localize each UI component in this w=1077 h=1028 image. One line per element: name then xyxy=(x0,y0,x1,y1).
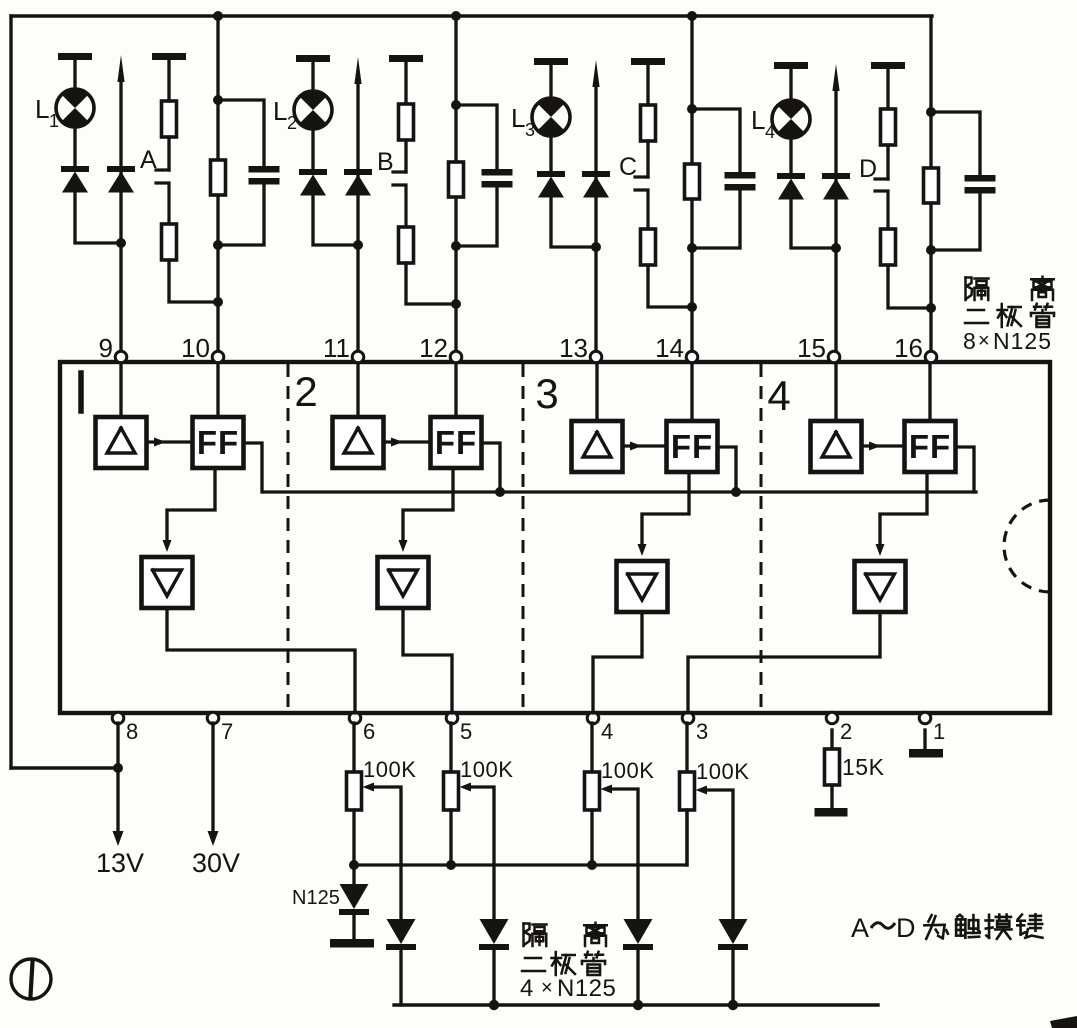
wire: pin to FF section 2 xyxy=(454,363,457,417)
wire: resistor to key C plate xyxy=(646,141,649,177)
wire: FF1 output to common line xyxy=(244,443,263,492)
wire: L3 diode to junction xyxy=(551,197,596,247)
svg-text:D: D xyxy=(859,155,877,183)
IC section divider 2 (dashed) xyxy=(522,364,525,711)
junction: key A node xyxy=(213,297,223,307)
svg-text:13: 13 xyxy=(559,333,588,363)
diode: isolation diode on sense line 1 xyxy=(107,166,135,193)
capacitor: channel 4 timing cap xyxy=(965,175,996,194)
terminal: mains bar for lamp L1 xyxy=(58,53,92,60)
label pin 3 xyxy=(696,719,708,744)
svg-text:100K: 100K xyxy=(363,757,416,782)
svg-text:2: 2 xyxy=(294,368,317,415)
scan mark bottom-right corner xyxy=(1050,1016,1077,1028)
flip-flop FF section 1 xyxy=(193,417,244,468)
resistor: channel 4 line resistor xyxy=(924,168,939,203)
wire: FF1 to driver xyxy=(163,468,216,552)
svg-text:15K: 15K xyxy=(842,754,885,780)
svg-text:100K: 100K xyxy=(601,758,654,783)
amp block section 1 xyxy=(96,417,147,468)
label: A~D are touch keys xyxy=(851,913,1042,943)
wire: L4 diode to junction xyxy=(791,199,836,248)
svg-text:N125: N125 xyxy=(993,328,1052,354)
diode: isolation diode on sense line 3 xyxy=(582,171,610,198)
lamp L3 xyxy=(532,98,570,137)
wire: channel 3 oscillator line xyxy=(690,16,693,352)
label L1 xyxy=(35,94,59,131)
wire: key A to pin 10 line xyxy=(169,260,218,302)
wire: resistor to key D plate xyxy=(886,145,889,179)
pin 1 terminal xyxy=(919,712,931,724)
junction: channel 4 RC top node xyxy=(926,107,936,117)
wire: pin 8 to 13V xyxy=(116,723,119,832)
wire: pot 3 bottom lead xyxy=(590,810,593,865)
terminal: mains bar for lamp L4 xyxy=(774,62,808,69)
junction: channel 3 RC top node xyxy=(687,104,697,114)
diode: isolation diode under L4 xyxy=(777,173,805,200)
junction: channel 2 diode node xyxy=(353,240,363,250)
svg-text:4: 4 xyxy=(765,122,775,142)
label pin 15 xyxy=(797,333,826,363)
label pin 8 xyxy=(126,719,138,744)
wire: amp to FF section 4 xyxy=(862,442,905,451)
resistor: lower resistor of key B xyxy=(399,227,414,263)
IC U1 outline xyxy=(60,362,1050,713)
svg-text:×: × xyxy=(978,330,990,352)
label 15K xyxy=(842,754,885,780)
svg-text:7: 7 xyxy=(221,719,233,744)
label pin 11 xyxy=(323,333,350,363)
label 100K (pin 3) xyxy=(696,759,749,784)
wire: key C to pin 14 line xyxy=(648,265,692,307)
wire: left supply rail (down left side) xyxy=(9,16,12,768)
svg-text:B: B xyxy=(377,148,394,176)
wiper arrow pot 1 xyxy=(363,783,402,920)
wire: channel 3 capacitor branch xyxy=(692,109,740,248)
label pin 16 xyxy=(894,333,923,363)
driver block section 2 xyxy=(378,557,429,608)
wire: 220V top supply rail xyxy=(11,14,932,17)
resistor: upper resistor of key D xyxy=(881,109,896,145)
IC package notch (dashed) xyxy=(1004,500,1050,592)
wire: diode 1 to bottom bus xyxy=(399,950,402,1005)
wiper arrow pot 3 xyxy=(601,785,639,920)
wire: pin to FF section 1 xyxy=(216,363,219,417)
wire: resistor to key A plate xyxy=(167,137,170,170)
wire: pin to amp section 2 xyxy=(356,363,359,417)
pin 10 terminal xyxy=(212,351,224,363)
label pin 6 xyxy=(363,719,375,744)
wire: lamp L2 top lead xyxy=(311,61,314,91)
wire: channel 2 oscillator line xyxy=(454,16,457,352)
wire: pin to FF section 4 xyxy=(928,363,931,421)
label pin 9 xyxy=(99,333,113,363)
label 30V xyxy=(192,848,240,878)
pin 4 terminal xyxy=(587,712,599,724)
lamp L1 xyxy=(56,89,94,128)
wire: channel 4 oscillator line xyxy=(929,16,932,352)
wire: pin to FF section 3 xyxy=(690,363,693,421)
driver block section 4 xyxy=(855,561,906,612)
wire: pot common line xyxy=(354,810,687,865)
pin 8 terminal xyxy=(112,712,124,724)
svg-text:C: C xyxy=(619,153,637,181)
terminal: mains bar for lamp L3 xyxy=(534,58,568,65)
wire: N125 clamp branch xyxy=(352,865,355,884)
svg-text:2: 2 xyxy=(287,113,297,133)
potentiometer 100K (pin 6) xyxy=(347,772,362,810)
touch key A lower plate xyxy=(156,183,169,224)
svg-text:10: 10 xyxy=(181,333,210,363)
resistor: channel 2 line resistor xyxy=(449,162,464,197)
diode: isolation diode 2 (4xN125) xyxy=(479,919,509,950)
label L4 xyxy=(751,105,775,142)
label: IC section 2 xyxy=(294,368,317,415)
svg-text:12: 12 xyxy=(419,333,448,363)
diode: isolation diode on sense line 2 xyxy=(344,169,372,196)
pin 7 terminal xyxy=(207,712,219,724)
wiper arrow pot 2 xyxy=(460,783,495,920)
svg-text:4: 4 xyxy=(767,372,790,419)
flip-flop FF section 2 xyxy=(431,417,482,468)
wire: pin 6 to pot xyxy=(352,723,355,772)
amp block section 2 xyxy=(333,417,384,468)
label key C xyxy=(619,153,637,181)
resistor: lower resistor of key A xyxy=(162,224,177,260)
wire: clamp diode to ground xyxy=(352,915,355,939)
arrow: to mains (channel 3) xyxy=(592,60,599,87)
junction: pot common node x=592 xyxy=(587,860,597,870)
label pin 5 xyxy=(460,719,472,744)
label pin 14 xyxy=(655,333,684,363)
pin 11 terminal xyxy=(352,351,364,363)
wire: bottom bus xyxy=(394,1003,878,1006)
wire: resistor to key B plate xyxy=(404,140,407,172)
capacitor: channel 3 timing cap xyxy=(725,172,756,191)
wire: diode 2 to bottom bus xyxy=(492,950,495,1005)
wire: pin 1 to ground xyxy=(923,730,926,749)
label: IC section 3 xyxy=(535,370,558,417)
capacitor: channel 2 timing cap xyxy=(482,169,513,188)
junction: key C node xyxy=(687,302,697,312)
wire: lamp L4 to diode xyxy=(789,138,792,173)
diode: isolation diode 4 (4xN125) xyxy=(718,919,748,950)
arrow: to mains (channel 1) xyxy=(117,55,124,82)
svg-text:A: A xyxy=(851,913,869,943)
svg-text:6: 6 xyxy=(363,719,375,744)
svg-text:L: L xyxy=(273,96,287,126)
wire: channel 4 capacitor branch xyxy=(931,112,980,250)
svg-text:9: 9 xyxy=(99,333,113,363)
resistor: lower resistor of key C xyxy=(641,229,656,265)
potentiometer 100K (pin 3) xyxy=(680,772,695,810)
svg-text:FF: FF xyxy=(435,424,477,461)
resistor: channel 3 line resistor xyxy=(685,164,700,199)
pin 16 terminal xyxy=(925,351,937,363)
junction: bus node x=638 xyxy=(633,1000,643,1010)
diode: isolation diode 1 (4xN125) xyxy=(386,919,416,950)
svg-text:L: L xyxy=(751,105,765,135)
ground: clamp ground bar xyxy=(330,939,374,948)
svg-text:N125: N125 xyxy=(557,975,616,1002)
junction: key D node xyxy=(926,303,936,313)
wire: pin to amp section 4 xyxy=(834,363,837,421)
wire: lamp L3 top lead xyxy=(549,64,552,98)
figure number (1) xyxy=(11,959,51,999)
ground: pin 1 ground bar xyxy=(909,749,943,758)
potentiometer 100K (pin 4) xyxy=(585,772,600,810)
driver block section 3 xyxy=(617,561,668,612)
ground: pin 2 ground bar xyxy=(815,808,848,817)
junction: channel 3 RC bottom node xyxy=(687,243,697,253)
wire: driver 3 to pin xyxy=(593,612,642,713)
terminal: mains bar for key C xyxy=(631,58,665,65)
junction: key B node xyxy=(451,299,461,309)
wire: FF4 to driver xyxy=(876,472,928,556)
junction: bus node x=494 xyxy=(489,1000,499,1010)
wire: amp to FF section 1 xyxy=(147,438,193,447)
wire: lamp L2 to diode xyxy=(311,129,314,169)
pin 9 terminal xyxy=(115,351,127,363)
IC section divider 1 (dashed) xyxy=(287,364,290,711)
junction: pot common node x=451 xyxy=(446,860,456,870)
svg-text:2: 2 xyxy=(840,719,852,744)
wire: L2 diode to junction xyxy=(313,195,358,245)
wiper arrow pot 4 xyxy=(696,786,734,920)
junction: channel 4 RC bottom node xyxy=(926,245,936,255)
resistor: upper resistor of key C xyxy=(641,105,656,141)
svg-text:A: A xyxy=(140,146,157,174)
junction: channel 2 RC top node xyxy=(451,100,461,110)
resistor 15K xyxy=(825,749,840,785)
junction: channel 1 RC bottom node xyxy=(213,240,223,250)
junction: channel 2 RC bottom node xyxy=(451,241,461,251)
potentiometer 100K (pin 5) xyxy=(444,772,459,810)
svg-text:×: × xyxy=(541,977,553,999)
label key A xyxy=(140,146,157,174)
label pin 2 xyxy=(840,719,852,744)
label 13V xyxy=(96,848,144,878)
wire: pin 2 to 15K xyxy=(830,730,833,749)
wire: key B upper lead xyxy=(404,61,407,104)
touch key D lower plate xyxy=(875,191,888,229)
resistor: channel 1 line resistor xyxy=(211,160,226,195)
junction: top rail node channel 2 xyxy=(451,11,461,21)
capacitor: channel 1 timing cap xyxy=(249,166,280,185)
wire: pin to amp section 3 xyxy=(595,363,598,421)
wire: channel 2 sense line xyxy=(356,81,359,352)
wire: FF2 to driver xyxy=(399,468,454,552)
junction: channel 1 RC top node xyxy=(213,95,223,105)
wire: channel 3 sense line xyxy=(594,84,597,352)
pin 14 terminal xyxy=(686,351,698,363)
pin 2 terminal xyxy=(826,712,838,724)
wire: pin 4 to pot xyxy=(590,723,593,772)
junction: common line node 2 xyxy=(495,487,505,497)
amp block section 4 xyxy=(811,421,862,472)
svg-text:4: 4 xyxy=(520,975,533,1002)
wire: pin 3 to pot xyxy=(685,723,688,772)
junction: top rail node channel 3 xyxy=(687,11,697,21)
label pin 10 xyxy=(181,333,210,363)
diode: isolation diode 3 (4xN125) xyxy=(623,919,653,950)
wire: channel 1 oscillator line xyxy=(216,16,219,352)
wire: FF3 output to common line xyxy=(718,447,737,492)
touch key C upper plate xyxy=(635,175,648,178)
svg-text:3: 3 xyxy=(535,370,558,417)
wire: channel 1 capacitor branch xyxy=(218,100,264,245)
driver block section 1 xyxy=(142,557,193,608)
pin 15 terminal xyxy=(828,351,840,363)
junction: bus node x=733 xyxy=(728,1000,738,1010)
IC section divider 3 (dashed) xyxy=(760,364,763,711)
wire: lamp L3 to diode xyxy=(549,136,552,171)
touch key A upper plate xyxy=(156,168,169,171)
wire: key B to pin 12 line xyxy=(406,263,456,304)
wire: key A upper lead xyxy=(167,59,170,101)
svg-text:11: 11 xyxy=(323,333,350,363)
resistor: upper resistor of key A xyxy=(162,101,177,137)
diode: isolation diode under L3 xyxy=(537,171,565,198)
svg-text:5: 5 xyxy=(460,719,472,744)
label pin 13 xyxy=(559,333,588,363)
junction: 13V node xyxy=(113,763,123,773)
wire: FF common reset line xyxy=(264,490,976,493)
lamp L4 xyxy=(772,100,810,139)
wire: pot 2 bottom lead xyxy=(449,810,452,865)
wire: lamp L4 top lead xyxy=(789,68,792,100)
wire: pot 1 bottom lead xyxy=(352,810,355,865)
label: isolation diodes 8xN125 (top right) xyxy=(963,277,1054,354)
resistor: lower resistor of key D xyxy=(881,229,896,265)
junction: common line node 3 xyxy=(731,487,741,497)
wire: lamp L1 top lead xyxy=(73,59,76,89)
pin 13 terminal xyxy=(590,351,602,363)
arrow: to mains (channel 2) xyxy=(354,57,361,84)
junction: channel 4 diode node xyxy=(831,243,841,253)
arrow: to mains (channel 4) xyxy=(832,64,839,91)
pin 6 terminal xyxy=(349,712,361,724)
wire: key D upper lead xyxy=(886,68,889,109)
wire: diode 3 to bottom bus xyxy=(636,950,639,1005)
terminal: mains bar for key D xyxy=(871,62,905,69)
flip-flop FF section 4 xyxy=(905,421,956,472)
svg-text:8: 8 xyxy=(963,328,976,354)
wire: L1 diode to junction xyxy=(75,192,121,243)
wire: 15K to ground xyxy=(830,785,833,808)
label pin 7 xyxy=(221,719,233,744)
wire: key C upper lead xyxy=(646,64,649,105)
resistor: upper resistor of key B xyxy=(399,104,414,140)
arrow: 30V supply xyxy=(208,831,219,846)
svg-text:FF: FF xyxy=(197,424,239,461)
svg-text:8: 8 xyxy=(126,719,138,744)
wire: channel 4 sense line xyxy=(834,88,837,352)
svg-text:13V: 13V xyxy=(96,848,144,878)
label key D xyxy=(859,155,877,183)
terminal: mains bar for key B xyxy=(389,55,423,62)
wire: driver 1 to pin xyxy=(167,608,355,713)
pin 5 terminal xyxy=(446,712,458,724)
label N125 xyxy=(292,887,340,909)
svg-text:4: 4 xyxy=(601,719,613,744)
label pin 12 xyxy=(419,333,448,363)
label 100K (pin 4) xyxy=(601,758,654,783)
wire: key D to pin 16 line xyxy=(888,265,931,308)
wire: driver 4 to pin xyxy=(688,612,880,713)
svg-text:3: 3 xyxy=(525,120,535,140)
wire: pin to amp section 1 xyxy=(119,363,122,417)
terminal: mains bar for lamp L2 xyxy=(296,55,330,62)
flip-flop FF section 3 xyxy=(667,421,718,472)
wire: pot 4 bottom lead xyxy=(685,810,688,865)
wire: FF4 output to common line xyxy=(956,447,975,492)
svg-text:L: L xyxy=(35,94,49,124)
diode: isolation diode under L2 xyxy=(299,169,327,196)
svg-text:FF: FF xyxy=(909,428,951,465)
label L2 xyxy=(273,96,297,133)
touch key B lower plate xyxy=(393,185,406,227)
svg-text:14: 14 xyxy=(655,333,684,363)
label L3 xyxy=(511,103,535,140)
svg-text:N125: N125 xyxy=(292,887,340,909)
amp block section 3 xyxy=(572,421,623,472)
lamp L2 xyxy=(294,91,332,130)
junction: top rail node channel 1 xyxy=(213,11,223,21)
diode: isolation diode under L1 xyxy=(61,166,89,193)
diode N125 clamp xyxy=(339,884,369,915)
wire: channel 2 capacitor branch xyxy=(456,105,497,246)
wire: amp to FF section 3 xyxy=(623,442,667,451)
wire: channel 1 sense line xyxy=(119,79,122,352)
svg-text:100K: 100K xyxy=(696,759,749,784)
label pin 4 xyxy=(601,719,613,744)
svg-text:1: 1 xyxy=(933,719,945,744)
label: IC section 4 xyxy=(767,372,790,419)
wire: diode 4 to bottom bus xyxy=(731,950,734,1005)
label pin 1 xyxy=(933,719,945,744)
junction: channel 3 diode node xyxy=(591,242,601,252)
svg-text:100K: 100K xyxy=(460,757,513,782)
wire: FF3 to driver xyxy=(638,472,690,556)
wire: driver 2 to pin xyxy=(403,608,452,713)
diode: isolation diode on sense line 4 xyxy=(822,173,850,200)
svg-text:16: 16 xyxy=(894,333,923,363)
svg-text:L: L xyxy=(511,103,525,133)
svg-text:1: 1 xyxy=(49,111,59,131)
wire: pin 5 to pot xyxy=(449,723,452,772)
wire: amp to FF section 2 xyxy=(384,438,431,447)
label: IC section 1 xyxy=(78,373,84,411)
junction: pot common node x=354 xyxy=(349,860,359,870)
wire: FF2 output to common line xyxy=(482,443,501,492)
svg-text:3: 3 xyxy=(696,719,708,744)
terminal: mains bar for key A xyxy=(152,53,186,60)
pin 12 terminal xyxy=(450,351,462,363)
svg-text:15: 15 xyxy=(797,333,826,363)
wire: pin 7 to 30V xyxy=(211,723,214,832)
svg-text:D: D xyxy=(896,913,916,943)
arrow: 13V supply xyxy=(113,831,124,846)
junction: channel 1 diode node xyxy=(116,238,126,248)
wire: lamp L1 to diode xyxy=(73,127,76,166)
touch key B upper plate xyxy=(393,170,406,173)
label: isolation diodes 4xN125 (bottom) xyxy=(520,923,616,1002)
touch key D upper plate xyxy=(875,177,888,180)
wire: left rail to pin 8 node xyxy=(11,766,118,769)
svg-text:FF: FF xyxy=(671,428,713,465)
label key B xyxy=(377,148,394,176)
